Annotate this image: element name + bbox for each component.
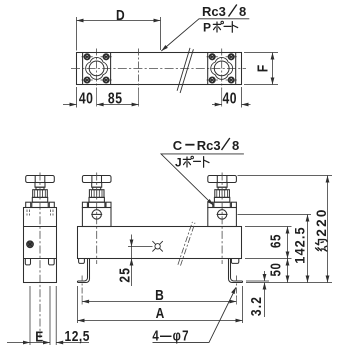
front view break lines <box>178 222 195 266</box>
front view right valve body <box>208 208 237 227</box>
dimension 65 <box>267 227 287 259</box>
label D <box>116 7 125 24</box>
side view lower tabs <box>25 259 54 265</box>
svg-text:D: D <box>116 7 125 24</box>
dimension 142.5 <box>292 215 308 283</box>
label approx 220 <box>314 207 329 251</box>
svg-text:Rc3: Rc3 <box>202 4 226 19</box>
label P port <box>203 21 238 35</box>
P port leader <box>161 19 249 51</box>
manifold bar <box>78 227 242 259</box>
svg-text:F: F <box>254 65 271 72</box>
top view body <box>77 53 242 85</box>
dimension 50 <box>267 259 287 283</box>
svg-text:Rc3: Rc3 <box>197 138 221 153</box>
left foot bracket <box>78 259 90 283</box>
label 4-phi7 with leader <box>152 327 189 344</box>
svg-text:8: 8 <box>239 4 246 19</box>
front view right valve upper <box>208 176 237 208</box>
side view block <box>24 208 57 283</box>
dimension D <box>77 17 161 51</box>
svg-text:E: E <box>35 328 43 345</box>
station centerline right <box>221 49 223 107</box>
dimension F <box>244 53 278 85</box>
dimension 25 <box>117 235 153 287</box>
E and 12.5 extension lines <box>30 286 56 345</box>
svg-text:40: 40 <box>223 89 238 107</box>
dimension 40 right (top view) <box>212 87 251 108</box>
dimension 12.5 <box>56 328 90 345</box>
dimension 40 left (top view) <box>63 87 93 108</box>
dimension 85 (top view) <box>97 89 139 107</box>
svg-text:220: 220 <box>314 207 329 236</box>
top view break lines <box>177 48 193 93</box>
label J port <box>175 156 209 170</box>
dimension 3.2 <box>248 271 264 317</box>
right under-bar tab <box>231 259 238 264</box>
side view hidden screw marks <box>27 210 53 216</box>
svg-text:142.5: 142.5 <box>292 226 308 264</box>
svg-text:P: P <box>203 21 211 35</box>
label F <box>254 65 271 72</box>
svg-text:50: 50 <box>267 263 284 277</box>
front view left valve upper <box>82 176 111 208</box>
svg-text:J: J <box>175 156 182 170</box>
side view valve assembly <box>26 176 55 208</box>
side view gauge port (dark) <box>27 241 34 248</box>
svg-text:40: 40 <box>79 89 94 107</box>
svg-text:12,5: 12,5 <box>65 328 90 345</box>
right extension lines <box>238 176 333 283</box>
svg-text:3.2: 3.2 <box>248 296 264 316</box>
gauge port position cross <box>152 241 162 251</box>
front right valve centerline <box>221 173 223 265</box>
top view horizontal centerline <box>71 68 246 70</box>
right hole centerline <box>235 276 237 305</box>
svg-text:B: B <box>155 287 164 304</box>
left port flange <box>82 53 112 85</box>
svg-text:85: 85 <box>108 89 123 107</box>
svg-text:65: 65 <box>267 234 284 248</box>
right foot bracket <box>229 259 243 283</box>
front view left valve body <box>82 208 111 227</box>
dimension E <box>7 328 50 345</box>
right port flange <box>207 53 237 85</box>
dimension B <box>82 287 236 304</box>
station centerline left <box>96 49 98 107</box>
C port leader <box>161 154 244 205</box>
svg-text:4—φ7: 4—φ7 <box>152 327 189 344</box>
svg-text:A: A <box>156 305 165 322</box>
side view centerline <box>39 173 41 339</box>
dimension approx 220 <box>327 176 329 283</box>
dimension A <box>78 286 243 323</box>
svg-text:25: 25 <box>117 267 133 283</box>
svg-text:C: C <box>173 138 183 153</box>
label Rc3/8 <box>202 4 246 19</box>
label C-Rc3/8 <box>173 138 239 153</box>
svg-text:8: 8 <box>232 138 239 153</box>
station centerline middle <box>138 49 140 107</box>
left under-bar tab <box>79 259 85 264</box>
front left valve centerline <box>96 173 98 265</box>
left hole centerline <box>81 276 83 305</box>
